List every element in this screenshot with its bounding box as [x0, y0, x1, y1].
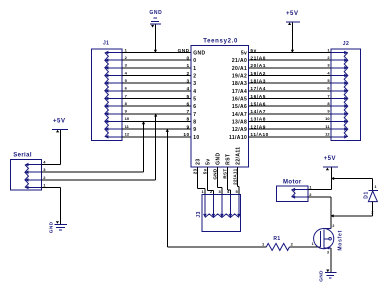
svg-text:Teensy2.0: Teensy2.0 [203, 38, 238, 44]
svg-text:RST: RST [226, 154, 232, 165]
net label 19/A2 [250, 71, 266, 77]
svg-text:10: 10 [125, 116, 130, 121]
wire Teensy 16/A5 to J2.7 [249, 98, 332, 100]
svg-text:GND: GND [216, 152, 222, 164]
svg-text:8: 8 [186, 117, 189, 123]
svg-text:20/A1: 20/A1 [250, 63, 266, 69]
svg-text:22/A11: 22/A11 [236, 147, 242, 165]
wire Teensy 17/A4 to J2.6 [249, 90, 332, 92]
pin number 1 (Motor) [309, 185, 312, 190]
pin number 11 (J1 side) [125, 124, 130, 129]
svg-text:4: 4 [193, 89, 196, 95]
svg-text:3: 3 [327, 251, 329, 255]
pin number 5 (J3 side) [235, 189, 238, 194]
svg-text:5: 5 [186, 94, 189, 100]
svg-text:12/A9: 12/A9 [232, 127, 247, 133]
svg-text:GND: GND [319, 270, 325, 282]
wire R1 to Mosfet gate [290, 246, 321, 248]
pin number 3 (Serial) [43, 167, 46, 172]
pin number 9 (J2 side) [327, 109, 330, 114]
svg-text:9: 9 [193, 127, 196, 133]
net label 5v [250, 48, 256, 54]
svg-text:9: 9 [186, 124, 189, 130]
pin number 3 (J1 side) [125, 63, 128, 68]
pin number 1 (J3 side) [201, 189, 204, 194]
net label 20/A1 [250, 63, 266, 69]
svg-text:5v: 5v [250, 48, 256, 54]
junction net 7 [154, 113, 157, 116]
wire Teensy 5v to J3.2 [208, 167, 214, 195]
wire Teensy 5v to J2.1 [249, 52, 332, 54]
wire Teensy GND to J3.3 [218, 167, 222, 195]
ground symbol GND (Mosfet) [319, 270, 337, 282]
wire Teensy 15/A6 to J2.8 [249, 105, 332, 107]
net label 5 [186, 94, 189, 100]
svg-text:5v: 5v [202, 168, 207, 174]
pin number 10 (J2 side) [325, 116, 330, 121]
net label 6 [186, 101, 189, 107]
svg-text:5: 5 [193, 97, 196, 103]
pin number 3 (Mosfet source) [327, 251, 329, 255]
wire Teensy 13/A8 to J2.10 [249, 120, 332, 122]
svg-text:J1: J1 [103, 41, 109, 47]
pin number 4 (Serial) [43, 160, 46, 165]
wire J1.4 to Teensy pin 2 [122, 75, 191, 77]
net label 5v (vertical) [202, 168, 207, 174]
pin number 2 (D1) [371, 210, 374, 215]
svg-text:J3: J3 [196, 211, 202, 217]
junction +5V on 5v wire [291, 50, 294, 53]
svg-text:GND: GND [149, 10, 162, 16]
svg-text:10: 10 [183, 132, 189, 138]
svg-text:Motor: Motor [283, 180, 302, 186]
wire J1.2 to Teensy pin 0 [122, 59, 191, 61]
wire Teensy 18/A3 to J2.5 [249, 82, 332, 84]
svg-text:0: 0 [186, 56, 189, 62]
svg-text:12/A9: 12/A9 [250, 124, 266, 130]
wire Teensy 14/A7 to J2.9 [249, 113, 332, 115]
Teensy right pin name 17/A4 [232, 89, 247, 95]
Teensy right pin name 11/A10 [229, 135, 247, 141]
wire D1 anode to drain node [331, 202, 373, 216]
pin number 2 (J3 side) [210, 189, 213, 194]
svg-text:14/A7: 14/A7 [232, 112, 247, 118]
pin number 3 (J2 side) [327, 63, 330, 68]
pin number 2 (Motor) [309, 192, 312, 197]
resistor R1 [266, 236, 289, 250]
+5V supply (Motor) [323, 156, 338, 170]
net label RST (vertical) [222, 169, 227, 179]
connector J2 [331, 41, 360, 140]
wire J1.7 to Teensy pin 5 [122, 98, 191, 100]
svg-text:GND: GND [193, 51, 205, 57]
wire J1.1 to Teensy pin GND [122, 52, 191, 54]
svg-text:23: 23 [192, 168, 197, 174]
wire J1.6 to Teensy pin 4 [122, 90, 191, 92]
svg-text:2: 2 [186, 71, 189, 77]
connector J3 [196, 195, 241, 232]
svg-text:1: 1 [312, 242, 314, 246]
svg-text:RST: RST [222, 169, 227, 179]
pin number 12 (J1 side) [125, 132, 130, 137]
pin number 1 (J2 side) [327, 47, 330, 52]
junction net 9 [166, 129, 169, 132]
junction drain/D1 node [331, 214, 334, 217]
Teensy bottom pin name 23 [196, 158, 202, 164]
wire Teensy 20/A1 to J2.3 [249, 67, 332, 69]
wire J1.9 to Teensy pin 7 [122, 113, 191, 115]
svg-text:21/A0: 21/A0 [232, 58, 247, 64]
pin number 7 (J2 side) [327, 93, 330, 98]
svg-text:5v: 5v [241, 51, 247, 57]
svg-text:15/A6: 15/A6 [232, 104, 247, 110]
connector Motor [277, 180, 309, 202]
svg-text:14/A7: 14/A7 [250, 109, 266, 115]
Teensy bottom pin name GND [216, 152, 222, 164]
svg-text:+5V: +5V [324, 156, 337, 162]
net label 3 [186, 78, 189, 84]
Teensy bottom pin name 22/A11 [236, 147, 242, 165]
svg-text:R1: R1 [273, 236, 280, 242]
svg-text:2: 2 [193, 74, 196, 80]
wire +5V down to Motor.1 [330, 168, 332, 190]
Teensy left pin name 6 [193, 104, 196, 110]
+5V supply (top right) [286, 11, 300, 25]
wire net 9 to R1 [167, 129, 266, 247]
svg-text:+5V: +5V [286, 11, 299, 17]
pin number 3 (J3 side) [218, 189, 221, 194]
pin number 4 (J3 side) [227, 189, 230, 194]
Teensy left pin name 4 [193, 89, 196, 95]
pin number 11 (J2 side) [325, 124, 330, 129]
wire Teensy 21/A0 to J2.2 [249, 59, 332, 61]
Teensy right pin name 19/A2 [232, 74, 247, 80]
pin number 8 (J2 side) [327, 101, 330, 106]
svg-text:6: 6 [186, 101, 189, 107]
net label 10 [183, 132, 189, 138]
pin number 2 (R1) [291, 241, 294, 246]
svg-text:15/A6: 15/A6 [250, 101, 266, 107]
svg-text:6: 6 [193, 104, 196, 110]
net label 4 [186, 86, 189, 92]
Teensy right pin name 18/A3 [232, 81, 247, 87]
wire J1.10 to Teensy pin 8 [122, 120, 191, 122]
wire J1.8 to Teensy pin 6 [122, 105, 191, 107]
net label 22/A11 (vertical) [232, 168, 237, 185]
svg-text:5v: 5v [206, 158, 212, 164]
svg-text:18/A3: 18/A3 [250, 78, 266, 84]
svg-text:J2: J2 [343, 41, 349, 47]
net label 23 (vertical) [192, 168, 197, 174]
wire J1.5 to Teensy pin 3 [122, 82, 191, 84]
svg-text:10: 10 [325, 116, 330, 121]
pin number 2 (Mosfet drain) [332, 224, 334, 228]
svg-text:22/A11: 22/A11 [232, 168, 237, 185]
wire J1.11 to Teensy pin 9 [122, 128, 191, 130]
op-amp U1 Teensy2.0 outline [191, 38, 249, 167]
svg-text:13/A8: 13/A8 [250, 117, 266, 123]
svg-text:GND: GND [178, 48, 190, 54]
svg-text:16/A5: 16/A5 [250, 94, 266, 100]
Teensy left pin name 8 [193, 119, 196, 125]
svg-text:12: 12 [325, 132, 330, 137]
wire Serial.3 to net 8 [41, 121, 143, 172]
transistor Q1 Mosfet [314, 229, 344, 251]
wire Teensy 19/A2 to J2.4 [249, 75, 332, 77]
svg-text:19/A2: 19/A2 [232, 74, 247, 80]
pin number 1 (Mosfet gate) [312, 242, 314, 246]
+5V supply (Serial) [52, 118, 68, 132]
pin number 1 (R1) [262, 241, 265, 246]
net label 15/A6 [250, 101, 266, 107]
junction net 8 [142, 121, 145, 124]
pin number 6 (J1 side) [125, 86, 128, 91]
Teensy right pin name 13/A8 [232, 119, 247, 125]
net label 12/A9 [250, 124, 266, 130]
junction +5V/D1 node [331, 177, 334, 180]
pin number 8 (J1 side) [125, 101, 128, 106]
connector J1 [92, 41, 123, 141]
Teensy left pin name 10 [193, 135, 199, 141]
svg-text:11/A10: 11/A10 [229, 135, 247, 141]
diode D1 [363, 190, 377, 201]
Teensy right pin name 15/A6 [232, 104, 247, 110]
pin number 5 (J2 side) [327, 78, 330, 83]
svg-text:20/A1: 20/A1 [232, 66, 247, 72]
pin number 2 (Serial) [43, 175, 46, 180]
svg-text:2: 2 [332, 224, 334, 228]
net label 0 [186, 56, 189, 62]
pin number 1 (J1 side) [125, 47, 128, 52]
Teensy left pin name 5 [193, 97, 196, 103]
net label 18/A3 [250, 78, 266, 84]
svg-text:0: 0 [193, 58, 196, 64]
pin number 2 (J1 side) [125, 55, 128, 60]
svg-text:3: 3 [193, 81, 196, 87]
svg-text:Serial: Serial [13, 152, 32, 158]
svg-text:12: 12 [125, 132, 130, 137]
Teensy bottom pin name RST [226, 154, 232, 165]
net label 2 [186, 71, 189, 77]
svg-text:4: 4 [186, 86, 189, 92]
ground symbol GND (top) [149, 10, 162, 27]
Teensy left pin name 3 [193, 81, 196, 87]
svg-text:16/A5: 16/A5 [232, 97, 247, 103]
Teensy right pin name 12/A9 [232, 127, 247, 133]
Teensy left pin name 7 [193, 112, 196, 118]
pin number 4 (J2 side) [327, 70, 330, 75]
svg-text:Mosfet: Mosfet [338, 230, 344, 251]
wire +5V to J2 pin1 net [291, 22, 293, 52]
junction GND on wire 1 [154, 50, 157, 53]
svg-text:18/A3: 18/A3 [232, 81, 247, 87]
svg-text:+5V: +5V [53, 118, 66, 124]
net label 7 [186, 109, 189, 115]
net label 16/A5 [250, 94, 266, 100]
Teensy left pin name 1 [193, 66, 196, 72]
svg-text:GND: GND [212, 168, 217, 179]
wire Serial.1 to GND [41, 188, 60, 225]
Teensy left pin name 2 [193, 74, 196, 80]
pin number 2 (J2 side) [327, 55, 330, 60]
pin number 6 (J2 side) [327, 86, 330, 91]
net label 8 [186, 117, 189, 123]
wire GND to J1 pin1 net [154, 25, 156, 53]
Teensy right pin name 21/A0 [232, 58, 247, 64]
svg-text:GND: GND [48, 221, 54, 233]
Teensy right pin name 16/A5 [232, 97, 247, 103]
wire Teensy 23 to J3.1 [198, 167, 205, 195]
Teensy right pin name 20/A1 [232, 66, 247, 72]
wire Teensy RST to J3.4 [228, 167, 231, 195]
net label 17/A4 [250, 86, 266, 92]
Teensy right pin name 14/A7 [232, 112, 247, 118]
net label 9 [186, 124, 189, 130]
Teensy left pin name GND [193, 51, 205, 57]
Teensy right pin name 5v [241, 51, 247, 57]
pin number 7 (J1 side) [125, 93, 128, 98]
svg-text:11/A10: 11/A10 [250, 132, 269, 138]
pin number 1 (D1) [374, 184, 377, 189]
net label GND (vertical) [212, 168, 217, 179]
pin number 10 (J1 side) [125, 116, 130, 121]
svg-text:19/A2: 19/A2 [250, 71, 266, 77]
svg-text:D1: D1 [363, 191, 369, 199]
pin number 9 (J1 side) [125, 109, 128, 114]
svg-text:23: 23 [196, 158, 202, 164]
wire Serial.2 to net 7 [41, 114, 155, 180]
wire Serial.4 to +5V [41, 130, 60, 165]
pin number 4 (J1 side) [125, 70, 128, 75]
Teensy bottom pin name 5v [206, 158, 212, 164]
svg-text:17/A4: 17/A4 [250, 86, 266, 92]
svg-text:3: 3 [186, 78, 189, 84]
net label GND [178, 48, 190, 54]
svg-text:7: 7 [186, 109, 189, 115]
net label 13/A8 [250, 117, 266, 123]
net label 21/A0 [250, 56, 266, 62]
wire J1.3 to Teensy pin 1 [122, 67, 191, 69]
svg-text:1: 1 [193, 66, 196, 72]
pin number 12 (J2 side) [325, 132, 330, 137]
Teensy left pin name 0 [193, 58, 196, 64]
wire Teensy 22/A11 to J3.5 [238, 167, 239, 195]
wire Mosfet source to GND [330, 248, 332, 272]
svg-text:13/A8: 13/A8 [232, 119, 247, 125]
wire Teensy 12/A9 to J2.11 [249, 128, 332, 130]
pin number 1 (Serial) [43, 183, 46, 188]
connector Serial [10, 152, 41, 190]
svg-text:1: 1 [186, 63, 189, 69]
wire +5V node to D1 cathode [331, 179, 372, 191]
wire Motor.2 to drain node [308, 197, 331, 229]
ground symbol GND (Serial) [48, 221, 67, 233]
wire Motor.1 to +5V node [308, 189, 331, 191]
net label 14/A7 [250, 109, 266, 115]
svg-text:10: 10 [193, 135, 199, 141]
svg-text:17/A4: 17/A4 [232, 89, 247, 95]
wire Teensy 11/A10 to J2.12 [249, 136, 332, 138]
svg-text:21/A0: 21/A0 [250, 56, 266, 62]
svg-text:7: 7 [193, 112, 196, 118]
net label 11/A10 [250, 132, 269, 138]
pin number 5 (J1 side) [125, 78, 128, 83]
Teensy left pin name 9 [193, 127, 196, 133]
wire J1.12 to Teensy pin 10 [122, 136, 191, 138]
net label 1 [186, 63, 189, 69]
svg-text:8: 8 [193, 119, 196, 125]
